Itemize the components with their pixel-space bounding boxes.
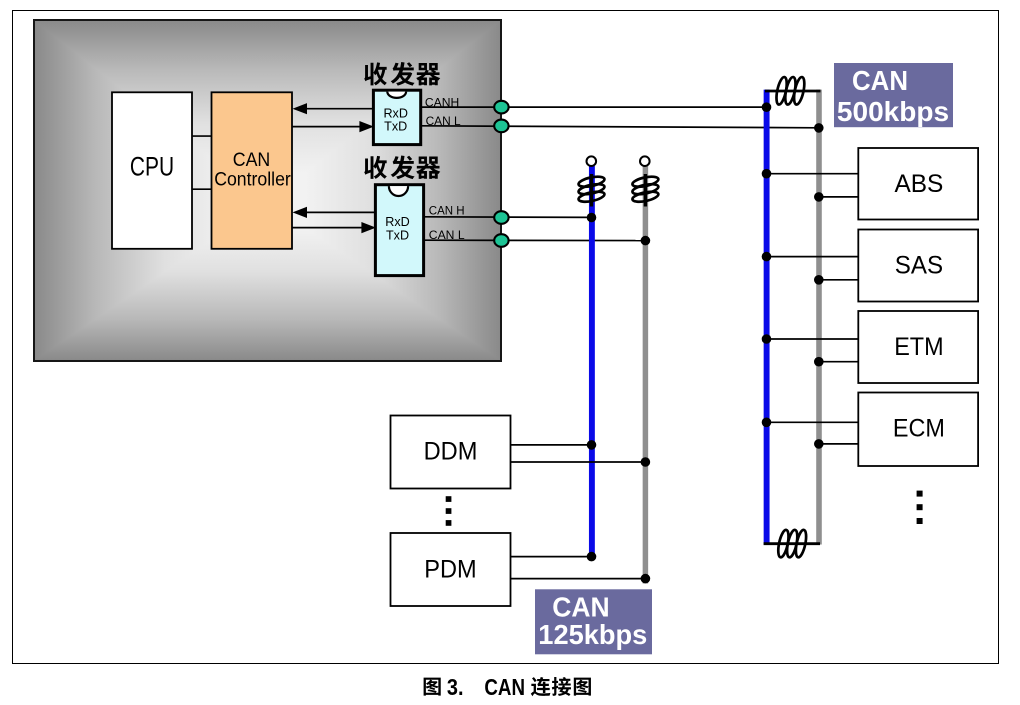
node ellipsis between DDM and PDM [446, 496, 452, 526]
wire ABS CAN-L stub [819, 196, 859, 198]
label CAN 500kbps [834, 63, 953, 127]
svg-text:TxD: TxD [386, 229, 409, 243]
ECU box ETM [858, 311, 978, 383]
wire bottom termination 500kbps [764, 542, 820, 545]
resistor on 125kbps blue bus (coil) [578, 174, 606, 207]
CAN Controller box U3 [212, 92, 293, 249]
CPU box [112, 92, 192, 249]
svg-text:DDM: DDM [424, 438, 478, 466]
node ECM gray [814, 439, 824, 449]
wire RxD arrow U2 to controller [293, 207, 376, 218]
ECU box ECM [858, 393, 978, 467]
node CAN L port [494, 120, 508, 133]
wire SAS CAN-L stub [819, 279, 859, 281]
svg-text:CAN H: CAN H [429, 203, 465, 217]
wire CAN-L 125kbps gray bus [643, 166, 649, 584]
wire ETM CAN-H stub [767, 338, 860, 340]
node ABS blue [762, 169, 772, 179]
svg-text:ETM: ETM [894, 333, 943, 361]
label 收发器 transceiver 1 [364, 62, 440, 86]
svg-text:SAS: SAS [895, 252, 943, 280]
svg-text:TxD: TxD [384, 119, 407, 133]
box PDM [391, 533, 511, 606]
node CAN H joins 125 blue bus [587, 213, 597, 223]
wire DDM CAN-L stub [510, 461, 645, 463]
svg-text:CAN: CAN [852, 65, 908, 96]
wire CPU-CANController bus line 2 [192, 188, 212, 190]
wire SAS CAN-H stub [767, 256, 860, 258]
transceiver U2 (125kbps) [375, 185, 423, 276]
node CAN L joins 125 gray bus [641, 236, 651, 246]
svg-text:3.: 3. [447, 674, 464, 700]
wire CAN L U2 to 125kbps gray bus [424, 239, 646, 241]
node open terminal 125kbps gray bus [640, 156, 650, 166]
node ETM blue [762, 334, 772, 344]
svg-text:500kbps: 500kbps [837, 96, 949, 127]
node ellipsis below ECM [917, 491, 923, 524]
node ABS gray [814, 192, 824, 202]
wire CPU-CANController bus line 1 [192, 135, 212, 137]
wire ECM CAN-H stub [767, 421, 860, 423]
node PDM blue [587, 552, 597, 562]
node DDM blue [587, 440, 597, 450]
wire ABS CAN-H stub [767, 173, 860, 175]
node CANH joins blue bus [762, 102, 772, 112]
node CAN L joins gray bus [814, 123, 824, 133]
ECU box ABS [858, 148, 978, 220]
svg-text:PDM: PDM [424, 556, 476, 584]
wire top termination 500kbps [765, 90, 821, 93]
resistor termination top (coil) [774, 76, 806, 105]
wire CAN L U1 to 500kbps gray bus [421, 126, 819, 128]
svg-text:CPU: CPU [130, 151, 174, 181]
node CANH port [494, 101, 508, 114]
node SAS blue [762, 252, 772, 262]
label 收发器 transceiver 2 [364, 155, 440, 179]
caption 图 3. CAN 连接图 [424, 674, 591, 700]
resistor on 125kbps gray bus (coil) [632, 174, 660, 207]
svg-text:ABS: ABS [894, 170, 943, 198]
node DDM gray [641, 457, 651, 467]
wire CANH U1 to 500kbps blue bus [421, 106, 767, 108]
svg-text:RxD: RxD [383, 106, 408, 120]
node CAN L port U2 [494, 234, 508, 247]
transceiver U1 (500kbps) [373, 90, 420, 144]
node CAN H port U2 [494, 211, 508, 224]
wire CAN-H 500kbps blue bus [764, 90, 770, 545]
wire PDM CAN-L stub [510, 578, 645, 580]
wire CAN-H 125kbps blue bus [589, 166, 595, 557]
svg-text:CANH: CANH [425, 95, 459, 109]
wire CAN H U2 to 125kbps blue bus [424, 216, 592, 219]
svg-text:CAN L: CAN L [426, 114, 461, 128]
wire ECM CAN-L stub [819, 443, 859, 445]
box DDM [391, 416, 511, 489]
resistor termination bottom (coil) [776, 529, 808, 558]
node ETM gray [814, 357, 824, 367]
node PDM gray [641, 574, 651, 584]
node open terminal 125kbps blue bus [587, 156, 597, 166]
svg-text:ECM: ECM [893, 415, 945, 443]
wire ETM CAN-L stub [819, 361, 859, 363]
wire PDM CAN-H stub [510, 556, 592, 558]
wire TxD arrow controller to U2 [292, 222, 376, 233]
wire DDM CAN-H stub [510, 444, 592, 446]
svg-text:CAN: CAN [484, 674, 525, 700]
wire TxD arrow controller to U1 [292, 121, 374, 132]
ECU box SAS [858, 230, 978, 302]
wire CAN-L 500kbps gray bus [816, 90, 822, 545]
svg-text:CAN L: CAN L [429, 228, 465, 242]
svg-text:Controller: Controller [214, 169, 291, 191]
wire RxD arrow U1 to controller [293, 103, 374, 114]
node ECM blue [762, 418, 772, 428]
svg-text:RxD: RxD [385, 215, 410, 229]
node SAS gray [814, 275, 824, 285]
svg-text:125kbps: 125kbps [538, 619, 647, 650]
microcontroller module shaded box [33, 19, 502, 362]
label CAN 125kbps [535, 589, 652, 654]
